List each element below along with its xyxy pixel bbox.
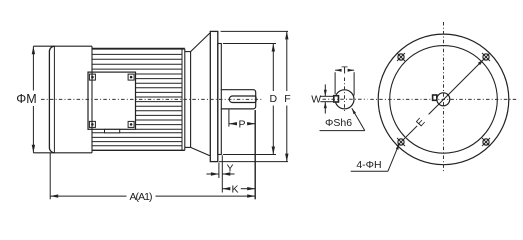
svg-text:D: D bbox=[270, 93, 278, 105]
svg-text:F: F bbox=[284, 93, 290, 105]
svg-text:Y: Y bbox=[226, 162, 233, 174]
svg-text:ΦSh6: ΦSh6 bbox=[325, 117, 352, 129]
svg-text:ΦM: ΦM bbox=[16, 92, 36, 106]
svg-text:P: P bbox=[238, 118, 245, 130]
svg-text:K: K bbox=[231, 183, 238, 195]
svg-text:A(A1): A(A1) bbox=[130, 191, 153, 203]
svg-text:4-ΦH: 4-ΦH bbox=[356, 159, 381, 171]
svg-text:W: W bbox=[311, 94, 321, 106]
svg-text:T: T bbox=[341, 65, 348, 77]
